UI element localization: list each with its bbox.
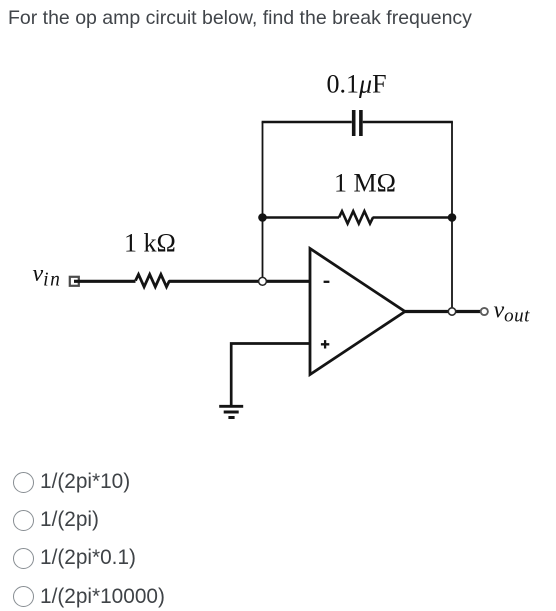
svg-text:vout: vout <box>494 298 531 327</box>
wire: feedback top-right vertical (capacitor branch down to output node) <box>451 122 453 312</box>
wire: resistor R1 to inverting input <box>169 280 310 283</box>
resistor R1 1 kOhm zigzag <box>136 274 170 286</box>
wire: op-amp output to v_out terminal <box>405 310 481 313</box>
resistor R2 1 MOhm zigzag <box>339 211 373 223</box>
node label v_out <box>494 298 531 327</box>
output terminal circle (v_out) <box>481 308 488 315</box>
op-amp non-inverting (+) marker <box>321 340 329 348</box>
wire: feedback resistor branch right segment <box>373 216 453 219</box>
wire: feedback resistor branch left segment <box>263 216 340 219</box>
svg-text:1 kΩ: 1 kΩ <box>124 229 176 258</box>
resistor value label 1 MOhm <box>334 169 396 198</box>
node: inverting input junction (open) <box>259 277 267 285</box>
op-amp inverting (-) marker <box>324 281 330 283</box>
wire: capacitor branch right segment <box>363 121 453 124</box>
svg-text:1 MΩ: 1 MΩ <box>334 169 396 198</box>
junction dot: right feedback node <box>448 213 457 222</box>
capacitor value label 0.1uF <box>327 70 387 99</box>
wire: feedback top-left vertical (node A up to capacitor branch) <box>262 122 264 281</box>
junction dot: left feedback node <box>258 213 267 222</box>
wire: v_in to resistor R1 <box>74 280 136 283</box>
svg-text:vin: vin <box>33 261 62 291</box>
input terminal square (v_in) <box>70 277 79 286</box>
wire: non-inverting input to ground corner <box>231 344 310 406</box>
svg-text:0.1μF: 0.1μF <box>327 70 387 99</box>
op-amp U1 triangle <box>310 249 405 375</box>
node label v_in <box>33 261 62 291</box>
node: output feedback junction (open) <box>448 308 455 315</box>
resistor value label 1 kOhm <box>124 229 176 258</box>
capacitor C1 plates <box>354 110 361 136</box>
ground symbol <box>219 406 243 417</box>
wire: capacitor branch left segment <box>262 121 352 124</box>
